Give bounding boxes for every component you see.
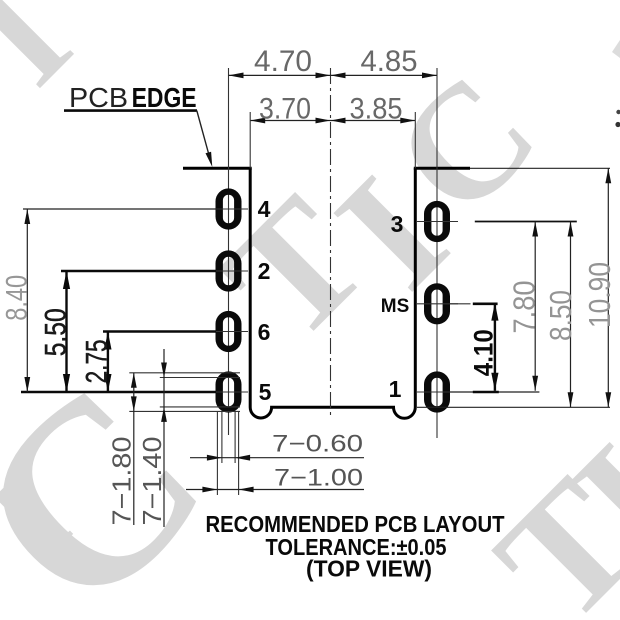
svg-text:4.70: 4.70 <box>254 45 312 78</box>
bottom outline extension line <box>417 406 610 408</box>
pad 4 (oval plated pad with hole) <box>216 188 242 229</box>
pad 6 horizontal crosshair <box>205 331 248 333</box>
dimension 4.10 vertical (bold) <box>494 303 496 391</box>
watermark sliver right edge upper <box>612 40 620 58</box>
top edge extension line <box>470 167 610 169</box>
pad MS horizontal crosshair <box>417 303 458 305</box>
pad 6 row extension line (thick) <box>103 330 216 333</box>
pad 5 outer-right extension <box>238 411 240 495</box>
pad inner-top extension line <box>160 377 240 379</box>
dimension 3.70 horizontal <box>250 120 330 122</box>
pad 6 (oval plated pad with hole) <box>216 311 242 352</box>
PCB EDGE underline <box>64 109 197 112</box>
pad 5 row datum extension line (thick) <box>21 391 216 394</box>
right pad column axis line <box>436 68 438 438</box>
svg-text:EDGE: EDGE <box>132 82 197 113</box>
svg-text:1: 1 <box>389 376 402 402</box>
svg-text:7−1.00: 7−1.00 <box>274 465 363 492</box>
svg-text:7−0.60: 7−0.60 <box>272 431 363 458</box>
left pad column axis line <box>228 68 230 435</box>
svg-text:(TOP VIEW): (TOP VIEW) <box>306 556 432 582</box>
3.70 left extension above wall <box>249 112 251 168</box>
PCB component outline: left top edge <box>183 167 252 170</box>
svg-text:5: 5 <box>259 379 272 405</box>
pad 2 horizontal crosshair <box>205 270 248 272</box>
dimension 7.80 vertical <box>534 222 536 391</box>
dimension 7-1.00 horizontal <box>186 489 364 491</box>
dimension 8.50 vertical <box>570 222 572 408</box>
MS row thin extension <box>450 303 471 305</box>
MS row thick tick (4.10 ext) <box>473 302 498 305</box>
pad MS (oval plated pad with hole) <box>424 283 450 324</box>
pad 4 horizontal crosshair <box>205 208 248 210</box>
dimension 7-1.40 vertical <box>163 349 165 527</box>
PCB component outline: U-shaped body with bottom notches <box>250 168 415 418</box>
pad 4 row extension line (thin) <box>23 208 216 210</box>
pad inner-bottom extension line <box>160 406 240 408</box>
svg-text:4.85: 4.85 <box>361 45 418 78</box>
svg-text:5.50: 5.50 <box>40 308 73 356</box>
pad 3 row extension line <box>475 221 577 223</box>
svg-text:2.75: 2.75 <box>81 339 114 383</box>
dimension 5.50 vertical (thick) <box>65 271 67 392</box>
PCB component outline: right top edge <box>414 167 470 170</box>
watermark sliver right edge lower <box>616 110 620 114</box>
svg-text:10.90: 10.90 <box>582 262 617 328</box>
pad 1 horizontal crosshair <box>417 391 458 393</box>
svg-text:MS: MS <box>381 296 410 317</box>
dimension 7-1.80 vertical <box>133 373 135 525</box>
svg-text:7.80: 7.80 <box>507 281 542 334</box>
dimension 4.70 horizontal <box>229 74 331 76</box>
svg-text:4.10: 4.10 <box>469 329 499 376</box>
pad 5 (oval plated pad with hole) <box>216 371 242 412</box>
svg-text:3.85: 3.85 <box>350 93 403 126</box>
vertical centerline (dash-dot) <box>330 68 332 419</box>
dimension 7-0.60 horizontal <box>190 457 364 459</box>
svg-text:8.40: 8.40 <box>1 275 34 321</box>
svg-text:7−1.80: 7−1.80 <box>107 437 137 526</box>
pad 5 inner-left extension <box>221 411 223 463</box>
svg-text:2: 2 <box>258 258 271 284</box>
svg-text:3.70: 3.70 <box>259 93 311 126</box>
pad 5 outer-left extension <box>216 411 218 495</box>
PCB EDGE leader line with arrow <box>197 111 211 161</box>
pad 1 row extension line <box>450 391 539 393</box>
pad outer-top extension line <box>129 372 240 374</box>
pad 3 horizontal crosshair <box>417 221 458 223</box>
pad 3 (oval plated pad with hole) <box>424 201 450 242</box>
dimension 10.90 vertical <box>607 168 609 407</box>
pad 2 (oval plated pad with hole) <box>216 250 242 291</box>
pad 5 inner-right extension <box>234 411 236 463</box>
pad 2 row extension line (thick) <box>61 270 216 273</box>
svg-text:6: 6 <box>258 319 271 345</box>
dimension 3.85 horizontal <box>331 120 416 122</box>
svg-text:PCB: PCB <box>69 82 128 113</box>
svg-text:7−1.40: 7−1.40 <box>137 437 167 526</box>
pad 1 row thick tick (4.10 ext) <box>473 391 499 394</box>
svg-text:3: 3 <box>391 211 404 237</box>
pad 5 horizontal crosshair <box>205 391 248 393</box>
dimension 8.40 vertical <box>26 209 28 392</box>
dimension 4.85 horizontal <box>331 74 438 76</box>
dimension 2.75 vertical (thick) <box>107 332 109 393</box>
svg-text:4: 4 <box>258 196 271 222</box>
3.85 right extension above wall <box>414 112 416 168</box>
pad outer-bottom extension line <box>129 410 240 412</box>
pad 1 (oval plated pad with hole) <box>424 371 450 412</box>
svg-text:8.50: 8.50 <box>543 290 578 341</box>
